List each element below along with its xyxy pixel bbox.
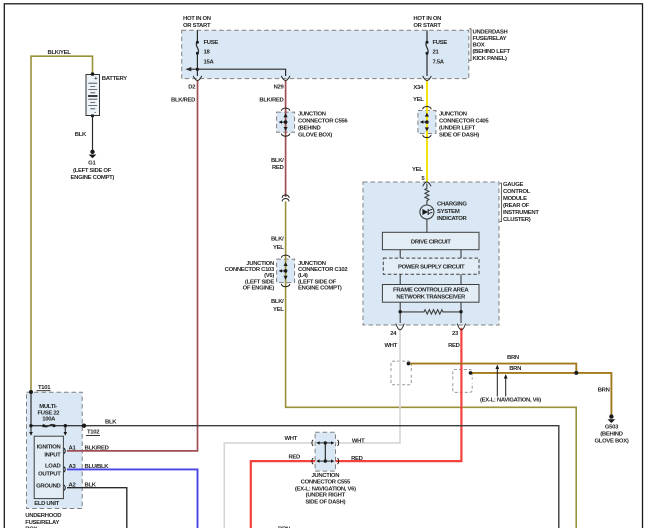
svg-text:WHT: WHT <box>284 436 297 442</box>
svg-text:(EX-L: NAVIGATION, V6): (EX-L: NAVIGATION, V6) <box>480 398 541 404</box>
svg-text:HOT IN ON: HOT IN ON <box>183 16 211 22</box>
svg-text:YEL: YEL <box>273 245 284 251</box>
svg-text:OR START: OR START <box>413 23 441 29</box>
svg-text:18: 18 <box>204 50 211 56</box>
svg-text:CLUSTER): CLUSTER) <box>503 217 531 223</box>
svg-text:CHARGING: CHARGING <box>437 202 467 208</box>
svg-text:BLK: BLK <box>105 420 117 426</box>
svg-text:FUSE: FUSE <box>204 40 219 46</box>
svg-text:BATTERY: BATTERY <box>102 76 127 82</box>
svg-text:NETWORK TRANSCEIVER: NETWORK TRANSCEIVER <box>396 295 466 301</box>
svg-text:CONNECTOR C405: CONNECTOR C405 <box>439 118 489 124</box>
svg-text:FUSE 22: FUSE 22 <box>37 410 60 416</box>
svg-text:(REAR OF: (REAR OF <box>503 203 530 209</box>
svg-text:FUSE/RELAY: FUSE/RELAY <box>473 36 507 42</box>
svg-text:G503: G503 <box>605 425 619 431</box>
svg-text:RED: RED <box>272 165 284 171</box>
svg-text:T102: T102 <box>87 430 100 436</box>
svg-text:BLK/: BLK/ <box>271 158 284 164</box>
svg-text:BLK/: BLK/ <box>271 237 284 243</box>
svg-text:CONNECTOR C556: CONNECTOR C556 <box>298 118 348 124</box>
svg-text:D2: D2 <box>188 84 196 90</box>
svg-text:JUNCTION: JUNCTION <box>298 111 326 117</box>
svg-text:CONTROL: CONTROL <box>503 189 531 195</box>
svg-text:WHT: WHT <box>385 343 398 349</box>
svg-text:(LEFT SIDE: (LEFT SIDE <box>245 279 274 285</box>
svg-text:(LEFT SIDE OF: (LEFT SIDE OF <box>73 168 112 174</box>
svg-text:BLK/YEL: BLK/YEL <box>48 50 72 56</box>
svg-text:HOT IN ON: HOT IN ON <box>413 16 441 22</box>
svg-text:BLK: BLK <box>75 132 87 138</box>
svg-text:BLK/: BLK/ <box>271 299 284 305</box>
svg-text:MULTI-: MULTI- <box>39 404 57 410</box>
svg-text:JUNCTION: JUNCTION <box>298 261 326 267</box>
svg-text:GLOVE BOX): GLOVE BOX) <box>298 132 332 138</box>
svg-text:(UNDER LEFT: (UNDER LEFT <box>439 125 476 131</box>
svg-text:BLK: BLK <box>85 482 97 488</box>
svg-text:IGNITION: IGNITION <box>37 445 61 451</box>
svg-text:A1: A1 <box>69 446 77 452</box>
svg-text:JUNCTION: JUNCTION <box>246 261 274 267</box>
svg-text:FUSE: FUSE <box>433 40 448 46</box>
svg-text:SIDE OF DASH): SIDE OF DASH) <box>305 499 345 505</box>
svg-text:POWER SUPPLY CIRCUIT: POWER SUPPLY CIRCUIT <box>398 265 465 271</box>
svg-text:(BEHIND LEFT: (BEHIND LEFT <box>473 49 511 55</box>
svg-text:INSTRUMENT: INSTRUMENT <box>503 210 539 216</box>
svg-text:YEL: YEL <box>413 97 424 103</box>
svg-text:BRN: BRN <box>507 355 519 361</box>
svg-text:BLK/RED: BLK/RED <box>171 97 195 103</box>
svg-text:(EX-L: NAVIGATION, V6): (EX-L: NAVIGATION, V6) <box>295 486 356 492</box>
svg-text:WHT: WHT <box>352 438 365 444</box>
svg-text:MODULE: MODULE <box>503 196 527 202</box>
svg-text:(V6): (V6) <box>264 273 274 279</box>
svg-text:LOAD: LOAD <box>45 463 61 469</box>
svg-text:OF ENGINE): OF ENGINE) <box>243 286 275 292</box>
svg-text:INDICATOR: INDICATOR <box>437 216 468 222</box>
svg-text:(LEFT SIDE OF: (LEFT SIDE OF <box>298 279 337 285</box>
svg-text:BOX: BOX <box>473 43 485 49</box>
svg-text:CONNECTOR C103: CONNECTOR C103 <box>225 267 275 273</box>
svg-text:FRAME CONTROLLER AREA: FRAME CONTROLLER AREA <box>393 287 469 293</box>
svg-text:JUNCTION: JUNCTION <box>311 473 339 479</box>
svg-text:SYSTEM: SYSTEM <box>437 209 460 215</box>
svg-text:7.5A: 7.5A <box>433 60 445 66</box>
svg-text:FUSE/RELAY: FUSE/RELAY <box>25 520 59 526</box>
svg-text:SIDE OF DASH): SIDE OF DASH) <box>439 132 479 138</box>
svg-text:OUTPUT: OUTPUT <box>38 471 61 477</box>
svg-text:YEL: YEL <box>412 167 423 173</box>
svg-text:CONNECTOR C555: CONNECTOR C555 <box>301 480 351 486</box>
svg-text:21: 21 <box>433 50 440 56</box>
svg-text:UNDERDASH: UNDERDASH <box>473 29 508 35</box>
svg-text:YEL: YEL <box>273 307 284 313</box>
svg-text:BLK/RED: BLK/RED <box>85 446 109 452</box>
svg-text:GAUGE: GAUGE <box>503 182 523 188</box>
svg-text:T101: T101 <box>38 385 51 391</box>
svg-text:G1: G1 <box>88 161 96 167</box>
svg-text:ENGINE COMPT): ENGINE COMPT) <box>71 175 115 181</box>
svg-text:BLK/RED: BLK/RED <box>259 97 283 103</box>
svg-text:100A: 100A <box>42 417 56 423</box>
svg-text:UNDERHOOD: UNDERHOOD <box>25 513 61 519</box>
svg-text:DRIVE CIRCUIT: DRIVE CIRCUIT <box>411 239 451 245</box>
svg-text:(BEHIND: (BEHIND <box>298 125 320 131</box>
svg-text:+: + <box>94 76 97 82</box>
svg-text:(UNDER RIGHT: (UNDER RIGHT <box>306 493 346 499</box>
svg-text:23: 23 <box>452 331 459 337</box>
svg-text:OR START: OR START <box>183 23 211 29</box>
svg-text:15A: 15A <box>204 60 215 66</box>
svg-text:KICK PANEL): KICK PANEL) <box>473 56 508 62</box>
svg-text:RED: RED <box>288 455 300 461</box>
svg-text:X34: X34 <box>413 85 424 91</box>
svg-text:ENGINE COMPT): ENGINE COMPT) <box>298 286 342 292</box>
svg-text:A2: A2 <box>69 482 77 488</box>
svg-text:INPUT: INPUT <box>44 453 61 459</box>
svg-text:BRN: BRN <box>598 388 610 394</box>
svg-text:(BEHIND: (BEHIND <box>600 431 622 437</box>
svg-text:N29: N29 <box>274 84 285 90</box>
svg-text:JUNCTION: JUNCTION <box>439 111 467 117</box>
svg-text:RED: RED <box>448 343 460 349</box>
svg-text:CONNECTOR C102: CONNECTOR C102 <box>298 267 348 273</box>
svg-text:GROUND: GROUND <box>36 483 60 489</box>
svg-text:ELD UNIT: ELD UNIT <box>34 501 59 507</box>
svg-text:(L4): (L4) <box>298 273 308 279</box>
svg-text:RED: RED <box>351 456 363 462</box>
svg-text:A3: A3 <box>69 464 77 470</box>
svg-text:BLU/BLK: BLU/BLK <box>85 464 110 470</box>
svg-text:BRN: BRN <box>509 366 521 372</box>
svg-text:GLOVE BOX): GLOVE BOX) <box>595 438 629 444</box>
svg-text:24: 24 <box>390 331 397 337</box>
